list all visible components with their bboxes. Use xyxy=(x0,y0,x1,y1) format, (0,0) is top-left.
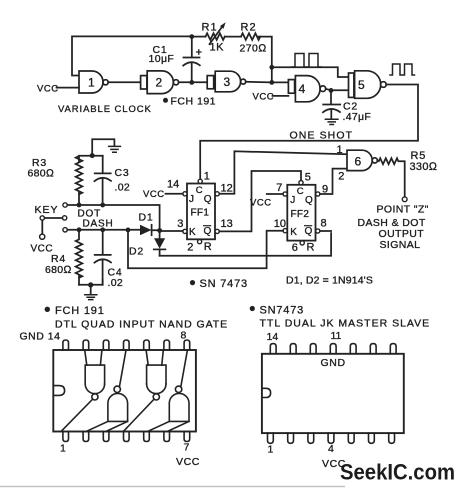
svg-text:VCC: VCC xyxy=(37,84,59,95)
resistor R1 potentiometer 1K xyxy=(206,22,226,44)
IC2 bottom pins xyxy=(268,433,395,443)
svg-text:C: C xyxy=(196,185,203,196)
ground R3C3 xyxy=(109,146,121,152)
svg-text:3: 3 xyxy=(177,218,183,230)
svg-text:GND: GND xyxy=(321,357,346,369)
IC1 gate A xyxy=(85,350,105,400)
IC2 index notch xyxy=(262,388,271,397)
FF1 pin 3 K xyxy=(183,229,187,233)
nand gate 5 xyxy=(349,71,387,99)
wire gate1 to gate2 xyxy=(108,81,140,83)
wire to ground R3C3 xyxy=(92,139,114,155)
node C1 bottom junction xyxy=(189,80,194,85)
svg-text:10: 10 xyxy=(274,218,286,230)
FF2 inner labels xyxy=(290,186,313,238)
wire dash branch to FF2 pin 10 xyxy=(128,230,283,268)
ground C2 xyxy=(325,119,338,124)
wire DOT line xyxy=(67,205,159,228)
wire FF2 Q pin9 to gate 6 input 2 xyxy=(320,169,347,194)
svg-text:Q: Q xyxy=(204,226,212,237)
FF2 pin 8 Qbar xyxy=(316,229,320,233)
svg-text:VCC: VCC xyxy=(143,189,165,200)
svg-text:4: 4 xyxy=(299,82,306,96)
node R3 bottom xyxy=(77,203,82,208)
svg-text:10μF: 10μF xyxy=(149,53,175,65)
nand gate 2 xyxy=(141,71,179,94)
node gate4 input xyxy=(269,80,274,85)
svg-text:14: 14 xyxy=(267,331,279,343)
resistor R3 680 ohm xyxy=(76,156,83,203)
svg-text:SN7473: SN7473 xyxy=(260,305,305,317)
svg-text:POINT "Z": POINT "Z" xyxy=(377,204,429,216)
svg-text:DASH: DASH xyxy=(83,219,114,230)
svg-text:13: 13 xyxy=(221,218,233,230)
svg-text:ONE SHOT: ONE SHOT xyxy=(290,130,354,142)
svg-text:1: 1 xyxy=(204,171,210,183)
capacitor C3 .02 xyxy=(94,156,111,205)
svg-text:270Ω: 270Ω xyxy=(240,43,267,55)
svg-text:D1, D2 = 1N914'S: D1, D2 = 1N914'S xyxy=(286,275,373,287)
FF2 pin 7 J xyxy=(283,192,287,196)
wire gate4 out to gate5 input xyxy=(326,89,349,91)
node one-shot branch xyxy=(269,65,274,70)
svg-text:680Ω: 680Ω xyxy=(45,264,72,276)
svg-text:C3: C3 xyxy=(115,167,130,179)
FF1 pin 14 J xyxy=(183,192,187,196)
label point Z output xyxy=(358,204,429,252)
svg-text:.02: .02 xyxy=(115,182,131,194)
svg-text:12: 12 xyxy=(221,183,233,195)
svg-text:5: 5 xyxy=(358,78,365,92)
svg-text:VCC: VCC xyxy=(250,198,272,209)
wire node to R1 xyxy=(192,36,206,38)
svg-text:2: 2 xyxy=(187,242,193,254)
svg-text:R: R xyxy=(204,241,212,253)
wire FF1 Qbar pin13 to FF2 clock pin5 xyxy=(219,171,301,231)
svg-text:J: J xyxy=(290,195,295,206)
svg-text:330Ω: 330Ω xyxy=(410,161,438,173)
svg-text:DTL QUAD INPUT NAND GATE: DTL QUAD INPUT NAND GATE xyxy=(55,319,228,331)
capacitor C4 .02 xyxy=(94,230,111,285)
label FCH 191 bullet xyxy=(163,98,168,103)
svg-text:.02: .02 xyxy=(108,277,124,289)
svg-text:D2: D2 xyxy=(129,246,144,258)
svg-text:FF2: FF2 xyxy=(291,209,310,220)
svg-text:7: 7 xyxy=(276,182,282,194)
wire gate2 to gate3 xyxy=(179,81,208,83)
svg-text:VCC: VCC xyxy=(253,92,275,103)
svg-text:R1: R1 xyxy=(202,22,218,34)
squarewave symbol 1 xyxy=(292,54,321,68)
flip-flop FF1 box xyxy=(187,184,215,240)
node C4 top xyxy=(100,227,105,232)
wire key pole xyxy=(42,218,62,234)
wire gate3 to gate4 xyxy=(246,81,289,84)
IC1 gate B xyxy=(87,350,128,431)
node dash memory branch xyxy=(126,228,131,233)
IC1 gate D xyxy=(148,350,189,431)
svg-text:SIGNAL: SIGNAL xyxy=(380,239,421,251)
node R4 top xyxy=(77,227,82,232)
wire VCC to gate4 xyxy=(273,95,289,97)
node R3C3 xyxy=(90,153,95,158)
wire R2 down to gate 4 input node xyxy=(258,37,272,68)
node C1/R1 junction top xyxy=(189,34,194,39)
resistor R5 330 ohm xyxy=(377,158,407,202)
svg-text:7: 7 xyxy=(184,442,190,454)
svg-text:FCH 191: FCH 191 xyxy=(55,305,105,317)
FF1 pin 13 Qbar xyxy=(215,229,219,233)
FF2 pin 6 R xyxy=(300,241,304,245)
svg-text:Q: Q xyxy=(204,194,212,205)
svg-text:6: 6 xyxy=(292,242,298,254)
label SN 7473 bullet xyxy=(190,280,195,285)
wire one-shot node to gate 5 top input xyxy=(272,67,349,77)
IC2 SN7473 package body xyxy=(262,354,404,433)
node R4C4 ground xyxy=(88,282,93,287)
wire node down xyxy=(271,67,273,82)
FF1 pin 12 Q xyxy=(215,192,219,196)
svg-text:J: J xyxy=(189,194,194,205)
svg-text:FCH 191: FCH 191 xyxy=(171,96,217,108)
wire R3 C3 top bracket xyxy=(79,156,103,162)
svg-text:KEY: KEY xyxy=(35,204,59,216)
FF1 pin 2 R xyxy=(198,240,202,244)
node C2 xyxy=(329,88,334,93)
ground R4C4 xyxy=(85,295,97,300)
svg-text:5: 5 xyxy=(305,172,311,184)
svg-text:D1: D1 xyxy=(139,212,154,224)
svg-text:K: K xyxy=(189,227,196,238)
resistor R4 680 ohm xyxy=(76,230,83,285)
svg-text:K: K xyxy=(290,227,297,238)
svg-text:3: 3 xyxy=(224,75,231,89)
svg-text:2: 2 xyxy=(156,76,163,90)
nand gate 3 xyxy=(207,71,246,92)
IC2 top pins xyxy=(270,344,396,354)
wire VCC to gate 1 xyxy=(57,87,80,89)
svg-text:2: 2 xyxy=(338,171,344,183)
nand gate 4 xyxy=(288,76,325,102)
svg-text:1: 1 xyxy=(268,444,274,456)
wire D2 to FF2 pin 8 xyxy=(160,231,332,256)
svg-text:R2: R2 xyxy=(241,22,257,34)
wire R4 C4 bottom bracket xyxy=(79,280,103,285)
svg-text:Q: Q xyxy=(305,195,313,206)
svg-text:1K: 1K xyxy=(210,42,225,54)
svg-text:SN 7473: SN 7473 xyxy=(200,278,248,290)
svg-text:GND 14: GND 14 xyxy=(20,331,61,343)
wire to ground R4C4 xyxy=(90,285,92,294)
svg-text:R: R xyxy=(307,242,315,254)
svg-text:8: 8 xyxy=(321,218,327,230)
capacitor C1 10uF xyxy=(183,37,201,83)
label SN7473 package bullet xyxy=(250,306,255,311)
key VCC terminal xyxy=(40,234,45,239)
diode D2 1N914 xyxy=(154,231,166,256)
svg-text:TTL DUAL JK MASTER SLAVE: TTL DUAL JK MASTER SLAVE xyxy=(260,318,431,330)
diode D1 1N914 xyxy=(140,225,152,235)
FF2 pin 9 Q xyxy=(316,192,320,196)
capacitor C2 .47uF xyxy=(323,90,340,118)
node D1 D2 junction xyxy=(157,228,162,233)
IC1 index notch xyxy=(53,386,64,396)
scan edge artifact bottom xyxy=(0,486,345,487)
wire DASH line xyxy=(67,229,140,231)
svg-text:SeekIC.com: SeekIC.com xyxy=(340,459,455,484)
svg-text:4: 4 xyxy=(328,443,334,455)
nand gate 1 xyxy=(79,71,108,93)
key switch contacts xyxy=(40,203,67,232)
IC1 top pins xyxy=(63,340,190,350)
squarewave symbol 2 xyxy=(390,64,415,75)
svg-text:14: 14 xyxy=(167,179,179,191)
flip-flop FF2 box xyxy=(287,185,315,241)
svg-text:1: 1 xyxy=(60,443,66,455)
IC1 gate C output diagonal xyxy=(124,399,154,431)
wire R1 to R2 xyxy=(225,36,241,38)
FF2 pin 10 K xyxy=(283,229,287,233)
nand gate 6 xyxy=(347,150,377,170)
wire gate5 output to FF1 clock xyxy=(200,85,418,180)
FF1 pin 1 clock xyxy=(198,179,202,183)
svg-text:6: 6 xyxy=(355,155,362,169)
IC1 gate C xyxy=(146,350,166,400)
svg-text:VCC: VCC xyxy=(31,244,54,255)
IC1 bottom pins xyxy=(63,432,190,442)
FF1 inner labels xyxy=(189,185,212,238)
wire D1 to FF1 pin3 xyxy=(152,229,183,232)
wire feedback from oscillator node to gate 1 input xyxy=(72,36,192,75)
svg-text:C: C xyxy=(297,186,304,197)
IC1 gate A output diagonal xyxy=(62,399,93,431)
svg-text:Q: Q xyxy=(305,226,313,237)
resistor R2 270 ohm xyxy=(241,33,260,40)
svg-text:1: 1 xyxy=(337,144,343,156)
wire FF1 Q pin12 to gate 6 input 1 xyxy=(219,151,347,194)
label FCH 191 package bullet xyxy=(45,307,50,312)
IC1 FCH191 package body xyxy=(53,350,196,432)
svg-text:FF1: FF1 xyxy=(191,208,210,219)
svg-text:VCC: VCC xyxy=(176,456,200,468)
svg-text:1: 1 xyxy=(88,76,95,90)
svg-text:680Ω: 680Ω xyxy=(28,168,55,180)
FF2 pin 5 clock xyxy=(299,181,303,185)
svg-text:11: 11 xyxy=(331,330,342,342)
svg-text:VARIABLE CLOCK: VARIABLE CLOCK xyxy=(58,104,152,115)
node C3 bottom xyxy=(100,203,105,208)
svg-text:.47μF: .47μF xyxy=(343,111,372,123)
